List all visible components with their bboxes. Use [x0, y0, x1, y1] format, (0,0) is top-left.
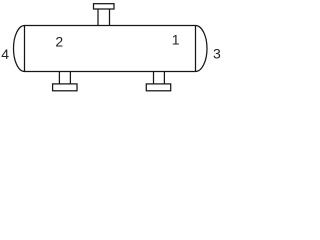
right support legs — [154, 72, 165, 84]
svg-text:4: 4 — [1, 46, 9, 62]
port label 4 — [1, 46, 9, 62]
top nozzle flange — [94, 4, 115, 9]
vessel shell (cylindrical body) — [25, 26, 196, 72]
right elliptical head — [196, 26, 208, 72]
right tangent line — [195, 26, 197, 72]
svg-text:1: 1 — [172, 32, 180, 48]
svg-text:2: 2 — [55, 34, 63, 50]
top nozzle neck — [98, 9, 110, 26]
port label 2 — [55, 34, 63, 50]
left support base plate — [53, 84, 77, 91]
left elliptical head — [14, 26, 25, 72]
port label 3 — [213, 46, 221, 62]
left support legs — [59, 72, 70, 84]
left tangent line — [24, 26, 26, 72]
right support base plate — [146, 84, 170, 91]
svg-text:3: 3 — [213, 46, 221, 62]
port label 1 — [172, 32, 180, 48]
